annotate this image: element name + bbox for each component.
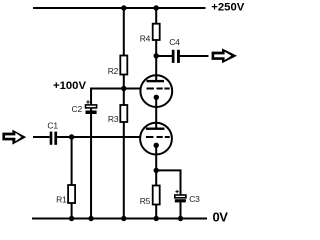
resistor R1 — [68, 185, 75, 203]
wire output line to C4 — [156, 55, 172, 57]
resistor R2 — [120, 56, 127, 75]
svg-text:R1: R1 — [56, 195, 67, 205]
resistor R5 — [153, 186, 160, 205]
svg-text:R4: R4 — [140, 33, 151, 43]
wire 0V ground rail — [32, 218, 207, 220]
node +100V junction — [121, 86, 126, 91]
capacitor C4 — [172, 50, 180, 63]
wire cathode node to C3 branch — [156, 170, 180, 194]
wire input stub — [33, 136, 50, 138]
node cathode / R5 / C3 junction — [154, 168, 159, 173]
svg-text:R3: R3 — [108, 114, 119, 124]
node junction top rail / divider — [121, 5, 126, 10]
node ground / R3 — [121, 216, 126, 221]
capacitor C3 electrolytic — [175, 190, 186, 203]
svg-text:C3: C3 — [189, 194, 200, 204]
input arrow terminal — [2, 130, 26, 145]
svg-text:+100V: +100V — [53, 80, 86, 92]
output arrow terminal — [212, 48, 237, 63]
wire C2 branch column — [90, 88, 92, 219]
svg-text:0V: 0V — [213, 210, 229, 225]
node ground / C2 — [88, 216, 93, 221]
capacitor C2 electrolytic — [86, 100, 97, 114]
wire upper anode lead — [155, 56, 157, 81]
wire upper cathode to lower anode — [155, 97, 157, 128]
wire C3 bottom lead — [180, 202, 182, 218]
wire R1 branch column — [71, 137, 73, 219]
triode V1a upper — [140, 75, 172, 107]
wire input grid line to lower grid — [57, 136, 140, 138]
node ground / C3 — [178, 216, 183, 221]
svg-text:R5: R5 — [140, 196, 151, 206]
node ground / R5 — [154, 216, 159, 221]
triode V1b lower — [140, 123, 172, 155]
wire R4 column from rail to anode node — [155, 8, 157, 56]
svg-text:+250V: +250V — [211, 1, 244, 13]
wire +250V top rail — [33, 7, 206, 9]
svg-text:R2: R2 — [108, 66, 119, 76]
svg-text:C2: C2 — [72, 104, 83, 114]
node junction top rail / R4 — [154, 5, 159, 10]
node input grid / R1 junction — [69, 134, 74, 139]
resistor R3 — [120, 105, 127, 122]
wire +100V node line to upper grid — [91, 88, 141, 90]
resistor R4 — [153, 24, 160, 40]
svg-text:C4: C4 — [169, 37, 180, 47]
wire lower cathode lead — [155, 145, 157, 170]
capacitor C1 — [50, 132, 57, 145]
node ground / R1 — [69, 216, 74, 221]
wire C4 to output arrow — [180, 55, 209, 57]
node anode / output junction — [154, 53, 159, 58]
svg-text:C1: C1 — [47, 121, 58, 131]
wire R2/R3 divider column — [123, 8, 125, 219]
wire cathode node to R5 and ground — [155, 170, 157, 218]
